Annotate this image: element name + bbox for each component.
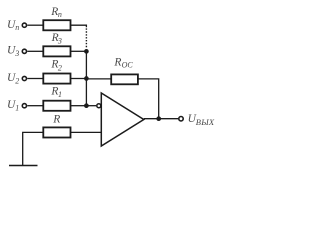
wire Roc to output corner	[138, 79, 158, 119]
wire R1 to node	[71, 105, 87, 107]
resistor R	[43, 127, 70, 137]
node output junction	[156, 116, 161, 121]
wire R to ground corner	[23, 132, 43, 165]
wire R2 to bus	[71, 78, 87, 80]
resistor R2	[43, 74, 70, 84]
op-amp inverting bubble	[97, 104, 101, 108]
resistor Roc	[111, 74, 138, 84]
wire U1 to R1	[27, 105, 43, 107]
svg-text:1: 1	[15, 104, 19, 113]
node junction at R2 / feedback tap	[84, 76, 89, 81]
terminal Un	[22, 23, 26, 27]
svg-text:3: 3	[57, 37, 62, 46]
wire output	[144, 118, 178, 120]
wire node to inverting bubble	[86, 105, 96, 107]
node junction at R1 / inverting input	[84, 103, 89, 108]
terminal U2	[22, 76, 26, 80]
wire U2 to R2	[27, 78, 43, 80]
svg-text:R: R	[113, 57, 121, 69]
wire R3 to bus	[71, 50, 87, 52]
svg-text:ВЫХ: ВЫХ	[196, 117, 215, 127]
wire Rn to bus corner	[71, 25, 87, 27]
node junction at R3	[84, 49, 89, 54]
ground	[9, 165, 38, 167]
resistor R1	[43, 101, 70, 111]
op-amp U1 triangle	[101, 93, 144, 146]
svg-text:3: 3	[14, 49, 19, 58]
dotted bus segment	[85, 28, 87, 48]
resistor R3	[43, 46, 70, 56]
terminal output	[179, 117, 183, 121]
bus wire vertical	[85, 51, 87, 105]
svg-text:R: R	[52, 113, 60, 125]
terminal U1	[22, 104, 26, 108]
svg-text:ОС: ОС	[122, 61, 134, 70]
svg-text:1: 1	[58, 90, 62, 99]
svg-text:2: 2	[58, 63, 62, 72]
svg-text:2: 2	[15, 76, 19, 85]
wire R to non-inverting input	[71, 131, 102, 133]
svg-text:n: n	[15, 23, 19, 32]
wire Un to Rn	[27, 24, 43, 26]
svg-text:n: n	[58, 10, 62, 19]
wire U3 to R3	[27, 50, 43, 52]
resistor Rn	[43, 20, 70, 30]
wire bus to Roc	[86, 78, 110, 80]
terminal U3	[22, 49, 26, 53]
